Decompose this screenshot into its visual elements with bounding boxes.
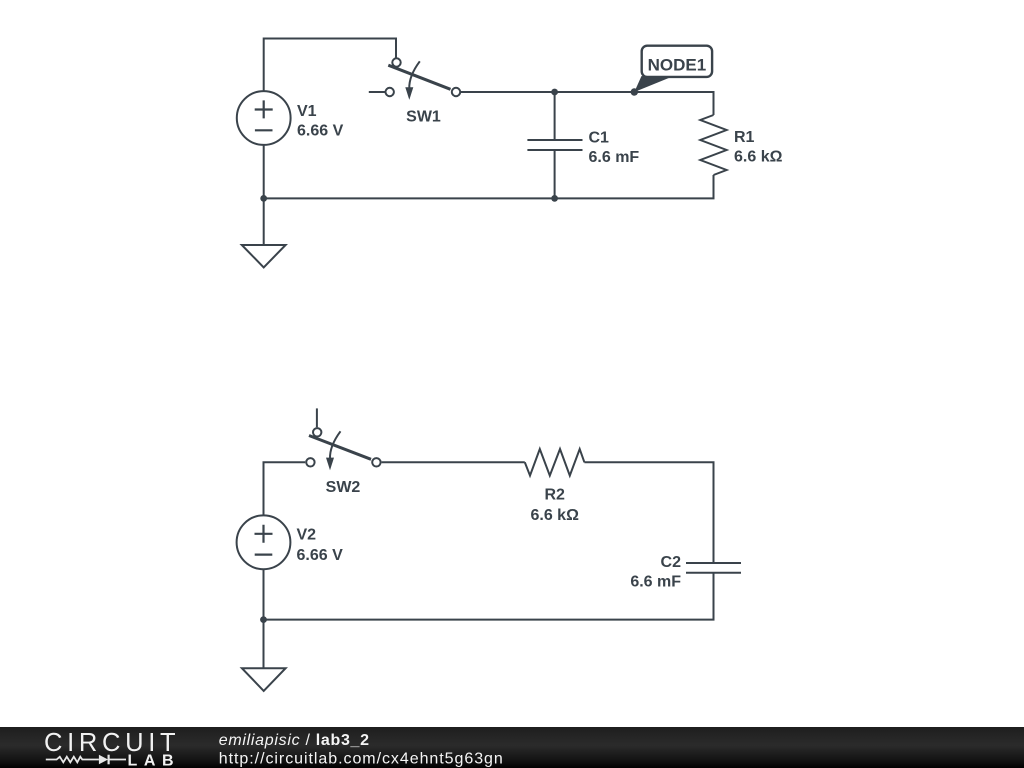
label V2 value: [297, 527, 344, 565]
junction bottom of C1: [551, 195, 558, 202]
wire C2 bottom lead and bottom rail to V2 column: [264, 573, 714, 620]
resistor R2: [525, 449, 585, 476]
svg-text:V2: V2: [297, 527, 317, 544]
svg-text:V1: V1: [297, 103, 317, 120]
voltage source V1: [237, 91, 291, 145]
switch SW2: [306, 408, 380, 470]
ground 2: [242, 668, 286, 691]
svg-text:NODE1: NODE1: [648, 55, 707, 74]
resistor R1: [700, 115, 726, 175]
voltage source V2: [237, 515, 291, 569]
wire V1 top to SW1 top terminal: [264, 39, 396, 93]
wire V2 bottom lead down to ground 2: [263, 569, 265, 668]
footer logo resistor-diode symbol: [46, 755, 126, 765]
junction top of C1: [551, 89, 558, 96]
capacitor C1: [527, 140, 582, 150]
junction bottom rail at V2 column: [260, 616, 267, 623]
svg-text:R1: R1: [734, 129, 755, 146]
svg-text:SW2: SW2: [326, 479, 361, 496]
svg-text:C1: C1: [589, 130, 610, 147]
svg-text:emiliapisic / lab3_2: emiliapisic / lab3_2: [219, 732, 370, 749]
svg-text:C2: C2: [661, 554, 682, 571]
svg-text:6.6 kΩ: 6.6 kΩ: [734, 149, 783, 166]
wire SW1 right terminal to top-right corner, down to R1: [461, 92, 714, 115]
svg-text:R2: R2: [544, 487, 565, 504]
svg-text:6.66 V: 6.66 V: [297, 547, 344, 564]
wire V2 top lead to SW2 left terminal: [264, 462, 306, 515]
svg-text:SW1: SW1: [406, 109, 441, 126]
svg-text:6.6 kΩ: 6.6 kΩ: [530, 507, 579, 524]
svg-text:http://circuitlab.com/cx4ehnt5: http://circuitlab.com/cx4ehnt5g63gn: [219, 751, 504, 768]
junction bottom rail at V1 column: [260, 195, 267, 202]
label R1 value: [734, 129, 783, 166]
wire C1 top lead: [554, 92, 556, 140]
capacitor C2: [686, 563, 741, 573]
label C1 value: [589, 130, 640, 167]
wire SW2 right terminal to R2: [382, 461, 525, 463]
svg-text:6.66 V: 6.66 V: [297, 123, 344, 140]
footer bar: [0, 727, 1024, 768]
wire C1 bottom lead: [554, 150, 556, 198]
svg-text:LAB: LAB: [128, 752, 181, 768]
switch SW1: [369, 58, 460, 100]
wire V1 bottom lead down to ground 1: [263, 145, 265, 245]
label V1 value: [297, 103, 344, 140]
wire R2 to top-right corner down to C2: [584, 462, 713, 563]
svg-text:6.6 mF: 6.6 mF: [630, 573, 681, 590]
label C2 value: [630, 554, 681, 591]
svg-text:6.6 mF: 6.6 mF: [589, 149, 640, 166]
node NODE1: [631, 46, 713, 96]
label R2 value: [530, 487, 579, 524]
ground 1: [242, 245, 286, 267]
wire R1 bottom lead and bottom rail to V1 column: [264, 175, 714, 198]
